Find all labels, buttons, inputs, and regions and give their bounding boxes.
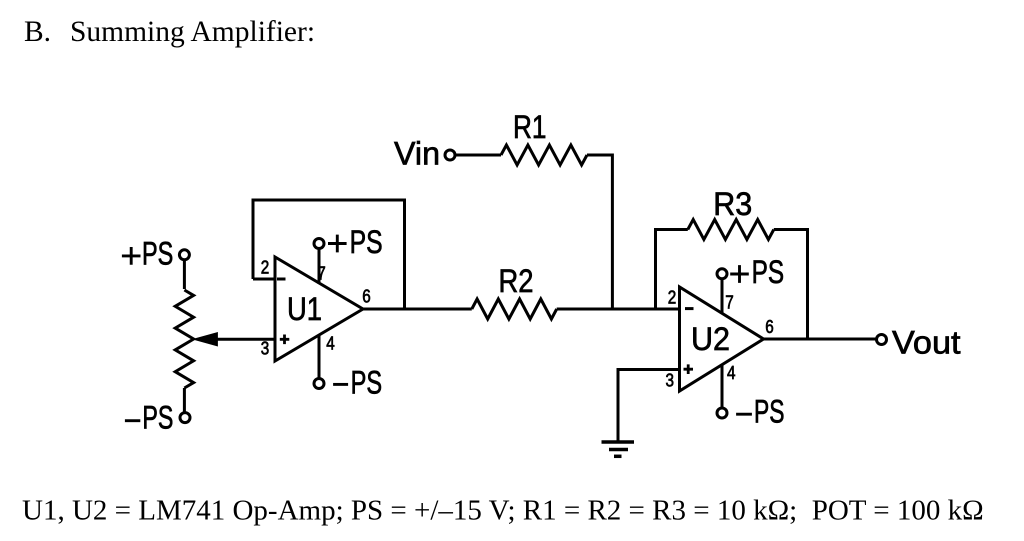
U1 plus sign bbox=[280, 335, 290, 345]
wire U1 feedback loop bbox=[253, 200, 405, 309]
svg-text:Summing Amplifier:: Summing Amplifier: bbox=[70, 16, 315, 48]
wire R3 to U2 output bbox=[774, 230, 808, 340]
svg-text:PS: PS bbox=[351, 365, 383, 401]
wire U2 output to Vout bbox=[764, 338, 877, 341]
svg-text:2: 2 bbox=[261, 258, 270, 278]
wire U1 inverting input stub bbox=[253, 278, 275, 281]
terminal Vout bbox=[877, 335, 887, 345]
wire U1 output bbox=[363, 308, 472, 311]
terminal U2 +PS bbox=[717, 269, 727, 279]
wire R1 to junction, down to summing node bbox=[587, 155, 612, 309]
terminal +PS pot bbox=[179, 250, 189, 260]
svg-text:PS: PS bbox=[142, 400, 173, 436]
wire U2 pin7 to +PS bbox=[721, 280, 724, 315]
svg-text:3: 3 bbox=[666, 371, 675, 391]
svg-text:R2: R2 bbox=[499, 263, 534, 299]
svg-text:Vout: Vout bbox=[892, 324, 961, 360]
op-amp U2 bbox=[680, 287, 764, 391]
svg-text:2: 2 bbox=[668, 287, 677, 307]
wire U2 pin4 to -PS bbox=[721, 365, 724, 408]
label U2 +PS bbox=[730, 265, 749, 283]
svg-text:R1: R1 bbox=[513, 109, 547, 145]
label U1 +PS bbox=[328, 235, 347, 253]
terminal -PS pot bbox=[180, 413, 190, 423]
U2 minus sign bbox=[685, 307, 694, 310]
wire U2 feedback left riser bbox=[656, 230, 688, 310]
resistor R2 bbox=[472, 299, 557, 319]
wire R2 to U2 inverting input bbox=[557, 308, 680, 311]
svg-text:R3: R3 bbox=[713, 186, 752, 222]
wire U1 pin4 to -PS bbox=[318, 335, 321, 378]
label -PS pot bbox=[125, 419, 140, 422]
label U2 -PS bbox=[736, 413, 752, 416]
resistor R1 bbox=[501, 145, 587, 165]
svg-text:7: 7 bbox=[317, 263, 326, 283]
terminal U1 -PS bbox=[314, 379, 324, 389]
svg-text:U1: U1 bbox=[287, 291, 322, 327]
svg-text:4: 4 bbox=[326, 334, 335, 354]
terminal U2 -PS bbox=[717, 408, 727, 418]
svg-text:PS: PS bbox=[350, 224, 383, 260]
svg-text:PS: PS bbox=[754, 394, 785, 430]
U1 minus sign bbox=[277, 278, 286, 281]
wire U2 pin3 to ground bbox=[618, 370, 680, 442]
svg-text:3: 3 bbox=[261, 339, 270, 359]
resistor R3 bbox=[688, 220, 774, 240]
svg-text:6: 6 bbox=[765, 317, 774, 337]
svg-text:7: 7 bbox=[725, 293, 734, 313]
ground bbox=[602, 442, 635, 456]
svg-text:PS: PS bbox=[142, 236, 173, 272]
svg-text:4: 4 bbox=[727, 363, 736, 383]
svg-text:6: 6 bbox=[362, 287, 371, 307]
svg-text:U2: U2 bbox=[691, 321, 730, 357]
svg-text:U1, U2 = LM741 Op-Amp; PS = +/: U1, U2 = LM741 Op-Amp; PS = +/–15 V; R1 … bbox=[22, 495, 984, 527]
svg-text:PS: PS bbox=[752, 254, 785, 290]
wire +PS terminal to potentiometer bbox=[183, 260, 186, 289]
wire Vin to R1 bbox=[455, 154, 501, 157]
U2 plus sign bbox=[684, 364, 694, 374]
potentiometer POT bbox=[175, 290, 193, 388]
wire U1 pin7 to +PS bbox=[318, 249, 321, 284]
potentiometer wiper arrow bbox=[194, 333, 218, 346]
wire wiper to U1 pin3 bbox=[215, 338, 275, 341]
label +PS pot bbox=[122, 247, 141, 265]
wire potentiometer to -PS terminal bbox=[183, 388, 186, 412]
svg-text:Vin: Vin bbox=[394, 135, 440, 171]
op-amp U1 bbox=[275, 257, 363, 361]
terminal U1 +PS bbox=[314, 239, 324, 249]
svg-text:B.: B. bbox=[24, 16, 51, 48]
terminal Vin bbox=[445, 150, 455, 160]
label U1 -PS bbox=[333, 383, 348, 386]
